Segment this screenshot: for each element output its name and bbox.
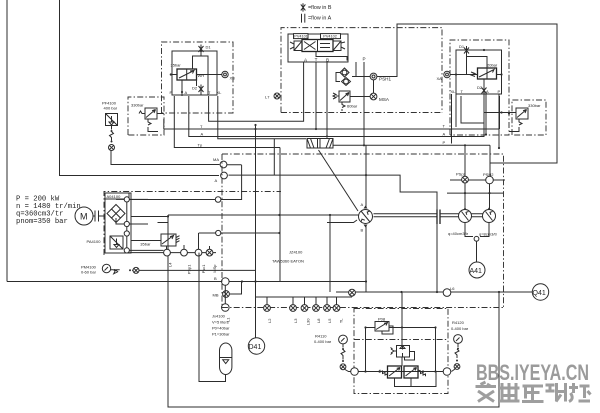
svg-text:PSp1: PSp1 <box>187 264 192 275</box>
svg-text:MSp: MSp <box>212 264 217 273</box>
svg-text:WH: WH <box>198 73 205 78</box>
directional valve PV4101/PV4102 body <box>302 40 333 52</box>
gauge R4110 <box>339 335 348 344</box>
relief 330bar right dash-dot box <box>512 100 546 135</box>
svg-text:A: A <box>215 178 218 183</box>
port Psc1 <box>195 249 202 256</box>
wire valve P drop <box>363 62 365 145</box>
wire R4120 chain <box>455 344 459 359</box>
svg-text:A: A <box>185 90 188 95</box>
wire B to L1 <box>224 285 226 304</box>
check diamond PF4100 <box>109 145 115 151</box>
svg-text:D2: D2 <box>477 85 483 90</box>
svg-text:330bar: 330bar <box>528 103 541 108</box>
throttle D1 <box>199 45 204 56</box>
port L30 <box>301 305 308 312</box>
lower manifold dash-dot box <box>222 154 504 308</box>
pump unit frame <box>105 193 131 253</box>
shaft between tandem pumps <box>472 214 483 217</box>
svg-text:A: A <box>201 132 204 137</box>
wire MA line <box>111 151 220 165</box>
wire PSp2 PSH2 drops <box>465 183 490 210</box>
port L6 <box>443 289 451 297</box>
gauge circles chain <box>124 197 129 202</box>
svg-text:400 bar: 400 bar <box>104 106 118 111</box>
svg-text:MB: MB <box>213 293 219 298</box>
gauge R4120 <box>454 335 463 344</box>
wire P08 feedback <box>382 326 393 334</box>
wire accumulator drain <box>199 253 226 382</box>
svg-text:=flow in A: =flow in A <box>308 15 332 21</box>
solenoid valve WH <box>177 69 197 80</box>
svg-text:Tp: Tp <box>198 142 203 147</box>
label PV4102 <box>321 34 341 39</box>
wire servo drop <box>279 148 281 282</box>
port PSp1 <box>181 249 188 256</box>
port flush drain <box>349 289 356 296</box>
wire left ports drops <box>181 95 183 96</box>
spring brake right <box>418 370 426 376</box>
node servo dot <box>278 232 280 234</box>
svg-text:0-400 bar: 0-400 bar <box>314 339 332 344</box>
relief valve 330bar left <box>145 108 157 119</box>
svg-text:T: T <box>315 57 318 62</box>
svg-text:P0=40bar: P0=40bar <box>212 326 230 331</box>
svg-text:q=40cm3/tr: q=40cm3/tr <box>448 231 469 236</box>
svg-text:=flow in B: =flow in B <box>308 5 332 11</box>
svg-text:A: A <box>443 131 446 136</box>
svg-text:XA: XA <box>437 76 443 81</box>
solenoid valve brake left <box>388 366 402 378</box>
svg-text:330bar: 330bar <box>131 103 144 108</box>
svg-text:B: B <box>361 228 364 233</box>
wire P line <box>174 96 490 148</box>
svg-text:P: P <box>170 90 173 95</box>
wire servo pressure line <box>199 232 280 234</box>
port row L2..TL stubs <box>256 296 353 304</box>
svg-text:L3: L3 <box>293 318 298 323</box>
spring symbol under relief <box>342 102 345 111</box>
spring brake left <box>380 370 388 375</box>
wire pump A side <box>365 145 367 208</box>
wire pilot line <box>316 52 347 61</box>
relief 35bar servo <box>161 234 176 246</box>
wire A work line right part <box>229 175 438 292</box>
dash-dot pump unit boundary <box>104 192 281 256</box>
svg-text:D2: D2 <box>192 86 198 91</box>
svg-text:P: P <box>363 57 366 62</box>
svg-text:P: P <box>443 140 446 145</box>
check diamond R4120 <box>454 364 460 370</box>
tandem pump 1 <box>459 210 472 223</box>
svg-text:L2: L2 <box>267 318 272 323</box>
port brake right <box>443 368 451 376</box>
wire pump B side <box>365 225 367 293</box>
tandem pump 2 <box>483 210 496 223</box>
solenoid valve right manifold <box>478 68 497 79</box>
port L7 <box>274 93 280 99</box>
spring 330bar right <box>519 119 522 130</box>
throttle D2 right <box>482 86 487 96</box>
wire T line <box>164 96 500 129</box>
wire left frame vertical <box>6 0 8 282</box>
node L6 line dots <box>400 291 402 293</box>
main pump JZ4100 <box>359 210 373 224</box>
motor M <box>75 207 93 225</box>
wire T link left <box>209 62 304 121</box>
svg-text:P08: P08 <box>378 317 386 322</box>
svg-text:D1: D1 <box>459 44 465 49</box>
wire PSp2 PSH2 manifold lines <box>447 180 505 193</box>
svg-text:A: A <box>486 89 489 94</box>
wire R4120 to line <box>452 369 456 372</box>
port L1 <box>222 304 230 312</box>
wire gauge port line <box>129 250 216 252</box>
center manifold dash-dot box <box>281 28 442 113</box>
watermark chinese char 1 <box>476 382 497 402</box>
watermark chinese char 4 <box>546 383 567 402</box>
filter A04100 diamond <box>107 205 125 223</box>
watermark chinese char 3 <box>522 386 544 402</box>
svg-text:MA: MA <box>213 157 219 162</box>
label A04100 <box>105 193 129 199</box>
svg-text:Psc1: Psc1 <box>201 264 206 274</box>
wire shaft to tandem <box>440 214 459 217</box>
port brake left <box>351 368 359 376</box>
svg-text:R4120: R4120 <box>452 320 465 325</box>
wire actuator A riser <box>60 0 220 176</box>
wire PF4100 chain <box>110 126 114 141</box>
svg-text:JZ4100: JZ4100 <box>289 250 303 255</box>
wire PSp2 riser <box>465 145 490 176</box>
filter PF4100 <box>106 114 118 126</box>
wire P08 line <box>366 328 436 372</box>
wire port risers <box>184 233 210 249</box>
check diamond R4110 <box>340 364 346 370</box>
wire valve B drop <box>326 62 328 137</box>
svg-text:PSH1: PSH1 <box>379 77 391 82</box>
port MSA <box>370 93 377 100</box>
right manifold body box <box>456 50 502 94</box>
wire reducing valve feedback <box>405 352 415 361</box>
svg-text:TAW5360 EATON: TAW5360 EATON <box>272 259 304 264</box>
wire to brake line <box>345 370 351 372</box>
port MA <box>220 161 227 168</box>
svg-text:L7: L7 <box>265 95 270 100</box>
svg-text:L30: L30 <box>306 318 311 325</box>
label PV4101 <box>294 34 309 39</box>
legend flow in A symbol <box>302 14 305 23</box>
gauge A41 <box>469 262 485 278</box>
svg-text:V=5 liters: V=5 liters <box>212 320 229 325</box>
wire servo feedback diagonal <box>319 150 359 211</box>
wire 330bar left drain <box>148 114 164 132</box>
center valve body box <box>288 34 348 62</box>
node tank junctions <box>278 214 280 216</box>
wire frame to relief and drop <box>127 217 168 254</box>
port L4 <box>164 249 171 256</box>
svg-text:XB: XB <box>230 76 236 81</box>
pressure reducing valve <box>397 346 410 358</box>
svg-text:Jx4100: Jx4100 <box>212 314 226 319</box>
throttle D1 right <box>464 46 469 57</box>
wire right ports drops <box>452 94 500 148</box>
svg-text:D1: D1 <box>206 45 212 50</box>
port A left <box>221 172 228 179</box>
svg-text:P1=30bar: P1=30bar <box>212 332 230 337</box>
check valve upper <box>340 68 349 77</box>
svg-text:PA4100: PA4100 <box>87 239 102 244</box>
wire B main line <box>7 281 366 283</box>
solenoid valve brake right <box>404 366 418 378</box>
solenoid left <box>294 41 302 51</box>
svg-text:PSH2: PSH2 <box>483 172 494 177</box>
wire PM4100 chain <box>111 270 133 274</box>
node B junction dots <box>241 280 243 282</box>
wire L6-Q41 line <box>336 291 533 293</box>
svg-text:Q41: Q41 <box>533 290 546 297</box>
check diamond PM4100 <box>133 267 139 273</box>
wire relief to MSA <box>350 96 370 98</box>
pilot frame left valve <box>193 56 209 95</box>
relief valve 330bar right <box>516 108 528 119</box>
svg-text:A04100: A04100 <box>107 194 122 199</box>
svg-text:M: M <box>80 212 88 222</box>
wire tank line <box>158 215 359 223</box>
wire checks to PSH1 <box>336 62 370 82</box>
wire PSH1-MSA riser <box>373 80 375 93</box>
svg-text:PV4101: PV4101 <box>294 35 308 39</box>
svg-text:20bar: 20bar <box>487 63 498 68</box>
port XA <box>444 71 450 77</box>
pump PA4100 <box>110 236 123 249</box>
left manifold dash-dot box <box>162 42 234 113</box>
svg-text:L4: L4 <box>168 262 173 267</box>
svg-text:60bar: 60bar <box>347 104 358 109</box>
wire right manifold internals <box>450 68 502 94</box>
svg-text:D41: D41 <box>249 344 262 351</box>
shaft main <box>374 214 438 217</box>
watermark chinese char 2 <box>499 383 520 402</box>
wire filter-pump chain <box>116 199 148 247</box>
stroke cylinder <box>307 139 333 149</box>
left manifold body box <box>172 51 217 95</box>
port TL <box>333 305 340 312</box>
svg-text:P: P <box>498 89 501 94</box>
port L5 <box>324 305 331 312</box>
svg-text:L5: L5 <box>327 318 332 323</box>
node servo circle <box>216 230 221 235</box>
throttle D2 <box>199 85 204 95</box>
solenoid right <box>333 41 341 51</box>
coupling bars <box>437 210 440 225</box>
wire flushing drop <box>329 215 331 292</box>
wire A line <box>189 96 484 137</box>
wire tandem pumps to A41 <box>465 223 489 263</box>
gauge Q41 <box>532 284 548 300</box>
svg-text:XL: XL <box>217 90 223 95</box>
wire PM4100 to B <box>139 125 256 338</box>
check valve lower <box>342 78 351 86</box>
port B <box>222 278 230 286</box>
relief valve 60bar <box>339 91 350 102</box>
svg-text:L8: L8 <box>316 318 321 323</box>
gauge D41 <box>248 338 264 354</box>
port PSp2 <box>462 176 469 183</box>
wire reducing valve drop <box>401 357 403 366</box>
port L8 <box>313 305 320 312</box>
svg-text:A: A <box>361 202 364 207</box>
wire 330bar right connections <box>484 113 519 132</box>
wire bottom box <box>168 215 499 407</box>
right manifold dash-dot box <box>450 40 509 135</box>
wire brake valve drains <box>395 372 437 387</box>
svg-text:0-60 bar: 0-60 bar <box>81 270 97 275</box>
pilot frame right valve <box>467 57 488 69</box>
svg-text:B: B <box>214 276 217 281</box>
svg-text:TL: TL <box>339 318 344 323</box>
port XB <box>217 74 222 76</box>
wire Tp to A-line riser <box>273 139 275 176</box>
port L2 <box>264 305 271 312</box>
wire MA charge line <box>129 165 241 200</box>
svg-text:pnom=350 bar: pnom=350 bar <box>16 218 68 226</box>
wire R4110 chain <box>341 344 345 360</box>
port PSH1 <box>370 73 377 80</box>
svg-text:MSA: MSA <box>379 97 390 102</box>
relief 330bar left dash-dot box <box>128 97 164 135</box>
accumulator <box>220 343 232 374</box>
svg-text:L6: L6 <box>450 286 455 291</box>
port MSp <box>206 249 213 256</box>
wire manifold internals <box>171 51 217 95</box>
wire Tp line <box>218 96 306 139</box>
wire brake main line <box>358 371 443 373</box>
svg-text:R4110: R4110 <box>315 334 327 339</box>
svg-text:35bar: 35bar <box>140 242 151 247</box>
brake cluster dash-dot box <box>354 309 448 394</box>
watermark chinese char 5 <box>569 383 591 402</box>
wire center drop <box>401 292 403 346</box>
svg-text:BBS.IYEYA.CN: BBS.IYEYA.CN <box>476 360 589 385</box>
port MB <box>223 291 230 298</box>
svg-text:B: B <box>326 58 329 63</box>
port PSH2 <box>486 176 494 184</box>
svg-text:0-400 bar: 0-400 bar <box>451 326 469 331</box>
spring 330bar left <box>139 111 151 130</box>
svg-text:q=8cm3/tr: q=8cm3/tr <box>479 232 498 237</box>
legend flow in B symbol <box>301 3 306 11</box>
svg-text:PV4102: PV4102 <box>323 35 337 39</box>
wire valve T drop <box>315 62 317 129</box>
port L3 <box>290 305 297 312</box>
wire PSH1 to PSH2 route <box>377 24 557 177</box>
svg-text:A41: A41 <box>470 268 483 275</box>
valve P08 <box>375 322 389 332</box>
svg-text:XL: XL <box>451 89 457 94</box>
gauge PM4100 <box>102 264 110 272</box>
motor shaft <box>93 211 106 222</box>
wire MB riser <box>229 282 241 295</box>
